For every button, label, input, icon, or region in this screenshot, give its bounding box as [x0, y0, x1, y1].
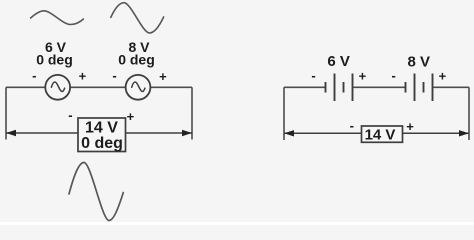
- svg-text:+: +: [359, 69, 367, 84]
- wire between batteries: [353, 86, 406, 88]
- svg-text:14 V: 14 V: [365, 127, 396, 144]
- svg-text:+: +: [127, 109, 135, 124]
- arrowhead left (right circuit): [284, 130, 294, 136]
- total box 14 V 0 deg: [78, 118, 126, 152]
- svg-text:+: +: [439, 69, 447, 84]
- wire right vertical: [191, 87, 193, 139]
- svg-text:8 V: 8 V: [408, 53, 431, 70]
- AC source V2 (8 V): [126, 75, 151, 100]
- svg-text:0 deg: 0 deg: [81, 135, 123, 152]
- svg-text:-: -: [311, 68, 315, 83]
- svg-text:-: -: [68, 108, 72, 123]
- wire top-right segment (right circuit): [433, 86, 470, 88]
- svg-text:-: -: [392, 68, 396, 83]
- battery B2 (8 V): [406, 74, 433, 102]
- wire between sources: [70, 86, 126, 88]
- waveform small sine for 6V source: [31, 11, 84, 25]
- svg-text:-: -: [112, 68, 116, 83]
- arrowhead right (right circuit): [459, 130, 469, 136]
- dimension line left circuit: [6, 132, 192, 134]
- total box 14 V (right circuit): [362, 126, 403, 142]
- svg-text:0 deg: 0 deg: [36, 51, 73, 67]
- wire left vertical: [5, 87, 7, 139]
- svg-text:0 deg: 0 deg: [118, 51, 155, 67]
- wire top-left segment: [6, 86, 45, 88]
- svg-text:+: +: [406, 119, 414, 134]
- AC source V1 (6 V): [45, 75, 70, 100]
- battery B1 (6 V): [326, 74, 353, 102]
- svg-text:6 V: 6 V: [327, 53, 350, 70]
- dimension line right circuit: [284, 132, 469, 134]
- arrowhead right (left circuit): [182, 130, 192, 136]
- svg-text:-: -: [32, 68, 36, 83]
- wire top-right segment: [150, 86, 192, 88]
- waveform big sine (14 V sum): [69, 163, 123, 221]
- svg-text:+: +: [79, 68, 87, 83]
- waveform larger sine for 8V source: [111, 3, 164, 33]
- svg-text:+: +: [159, 69, 167, 84]
- arrowhead left (left circuit): [6, 130, 16, 136]
- wire right vertical (right circuit): [468, 87, 470, 140]
- wire left vertical (right circuit): [283, 87, 285, 140]
- wire top-left segment (right circuit): [284, 86, 326, 88]
- svg-text:-: -: [350, 118, 354, 133]
